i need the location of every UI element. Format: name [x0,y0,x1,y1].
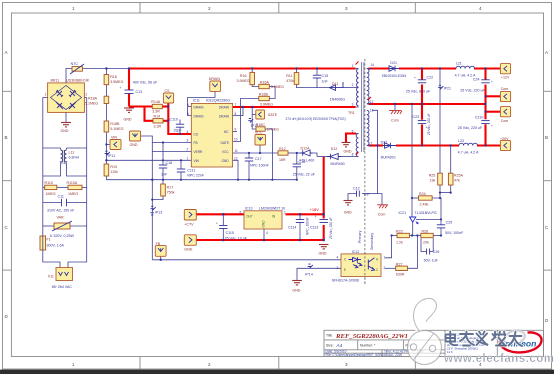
wire bridge AC left [43,98,60,268]
svg-text:400 Vdc, 56 uF: 400 Vdc, 56 uF [133,81,158,85]
wire divider row [392,235,441,237]
svg-text:Com: Com [501,87,509,91]
wire opto LED cathode to R27 [385,236,417,269]
resistor R25 [429,173,443,185]
svg-text:Number: *: Number: * [360,344,376,348]
svg-text:110k: 110k [110,170,118,174]
svg-text:+12V: +12V [501,76,510,80]
svg-text:GATE: GATE [221,141,229,145]
resistor R14A [151,100,162,113]
svg-text:630R: 630R [396,273,405,277]
ground GND bridge [61,112,72,133]
port Com upper [500,87,510,101]
resistor R16B [259,93,273,107]
svg-text:C114: C114 [288,226,296,230]
shunt regulator IC21 TL431 [399,211,437,224]
wire VCC port stem [259,145,261,153]
svg-text:GND: GND [61,129,69,133]
svg-text:www.elecfans.com: www.elecfans.com [443,353,554,365]
resistor R19 [104,164,118,176]
svg-text:50V, 1uF: 50V, 1uF [424,259,439,263]
svg-text:ICE2QR2280G: ICE2QR2280G [206,99,230,103]
svg-text:1N4006G: 1N4006G [330,98,346,102]
svg-text:1MEG: 1MEG [46,192,56,196]
wire VCC pin11 row [233,153,317,157]
wire CS shunt network [129,103,191,134]
svg-text:R19: R19 [110,165,117,169]
capacitor C24 [460,78,493,93]
svg-text:GND: GND [222,159,230,163]
svg-text:GND: GND [344,211,352,215]
diode D21 [382,61,407,78]
svg-text:R24: R24 [419,192,426,196]
resistor R27 [396,262,408,276]
svg-text:C13: C13 [136,90,143,94]
resistor R11 [286,73,299,85]
resistor R18B [104,121,124,132]
svg-text:L23: L23 [458,139,464,143]
ground GND +18V [319,245,329,256]
wire output filter branch [486,69,501,146]
ground GND C12 [344,201,353,215]
wire VERR stub [152,151,191,153]
wire C11 rung [43,202,87,204]
svg-text:F1: F1 [47,238,51,242]
ground GND TR1 pin5 [342,143,352,154]
svg-text:R16: R16 [240,74,247,78]
capacitor C11 [47,195,75,213]
wire IC13 out to +18V node [286,213,324,215]
svg-text:3: 3 [187,139,189,143]
wire IC13 gnd stub [263,229,265,240]
svg-text:C22: C22 [427,76,434,80]
svg-text:IC21: IC21 [399,211,407,215]
capacitor C210 [458,116,493,131]
resistor R24 [419,192,433,207]
resistor R23 [396,230,409,245]
diode D12 [327,147,345,166]
ground Com hatch rail [389,111,402,123]
svg-text:GND: GND [262,220,266,228]
svg-text:25 Vdc, 220 uF: 25 Vdc, 220 uF [460,89,485,93]
svg-text:+18V: +18V [310,207,320,212]
capacitor C115 [216,222,248,241]
svg-text:R18B: R18B [110,122,120,126]
svg-text:R12: R12 [279,147,286,151]
svg-text:+20V: +20V [500,137,509,141]
svg-text:C23: C23 [413,115,420,119]
wire C17 hanger [248,153,250,180]
svg-text:300V, 1.6A: 300V, 1.6A [47,244,65,248]
svg-text:R14A: R14A [151,100,161,104]
svg-text:R14: R14 [154,115,161,119]
svg-text:D21: D21 [390,61,397,65]
svg-text:C15: C15 [322,74,329,78]
svg-text:IP11: IP11 [108,154,115,158]
svg-text:R23: R23 [396,230,403,234]
svg-text:R27: R27 [396,262,403,266]
svg-text:25 Vdc, 22 uF: 25 Vdc, 22 uF [293,173,316,177]
svg-text:X11: X11 [48,275,54,279]
svg-text:2: 2 [208,6,211,11]
varistor VAR [50,216,75,239]
svg-text:18R: 18R [279,158,286,162]
capacitor C12 [353,187,370,197]
svg-text:+: + [120,86,122,90]
wire aux +18V rail [323,157,325,241]
connector X11 [48,268,73,290]
svg-text:Com: Com [391,119,399,123]
port GATE [256,110,278,119]
wire opto LED anode net [385,236,392,258]
wire TR1 pin5 to GND [346,134,356,143]
wire R18C to rail [265,129,272,180]
watermark lock [408,298,442,364]
svg-text:25 Vdc, 220 uF: 25 Vdc, 220 uF [427,113,431,135]
capacitor C26 [424,249,440,263]
svg-text:C24: C24 [473,78,480,82]
svg-text:VIN: VIN [194,159,200,163]
svg-text:DRAIN: DRAIN [219,114,230,118]
svg-text:3.9MEG: 3.9MEG [237,79,250,83]
svg-text:310V AC, 150 nF: 310V AC, 150 nF [47,209,75,213]
port DRAIN [209,77,221,91]
svg-text:CS: CS [194,132,198,136]
svg-text:R25A: R25A [454,174,464,178]
svg-text:1: 1 [187,156,189,160]
svg-text:NPC, 100nF: NPC, 100nF [306,217,310,235]
port Com lower [500,107,510,123]
wire drain pin8 tie [233,107,243,116]
wire DC bus+ top rail [129,67,356,69]
svg-text:FB: FB [194,141,198,145]
diode D22 [381,141,397,160]
op-amp controller IC11 ICE2QR2280G [187,99,239,168]
ground Com hatch C12 [377,205,388,217]
wire DRAIN port to pins [188,92,215,116]
svg-text:TR1: TR1 [348,111,355,115]
resistor R16 [237,72,255,84]
svg-text:BR11: BR11 [51,78,60,82]
svg-text:LM2903WDT 10: LM2903WDT 10 [259,207,285,211]
svg-text:L11: L11 [69,151,75,155]
capacitor C23 [413,113,432,135]
svg-text:2: 2 [208,362,211,367]
svg-text:C210: C210 [475,116,484,120]
wire D11 jog [296,87,298,89]
wire C115 hanger [222,214,224,240]
capacitor C18 [159,161,172,177]
wire isolation dash overlay [364,252,366,285]
wire feedback bottom rail [152,259,341,261]
svg-text:470k: 470k [286,79,294,83]
capacitor C15 [313,74,329,84]
svg-text:IP13: IP13 [155,211,162,215]
svg-text:R25: R25 [429,174,436,178]
svg-text:IC12: IC12 [352,250,360,254]
svg-text:1: 1 [72,362,75,367]
svg-text:1: 1 [72,6,75,11]
optocoupler IC12 SFH617A [332,250,386,283]
svg-text:C12: C12 [353,187,360,191]
svg-text:14: 14 [371,63,375,67]
svg-text:D12: D12 [331,147,338,151]
svg-text:12: 12 [234,156,238,160]
svg-text:CS: CS [165,89,171,93]
svg-text:C115: C115 [226,231,234,235]
svg-text:GND: GND [184,247,192,251]
svg-text:750k: 750k [167,191,175,195]
svg-text:25 Vdc, 10 uF: 25 Vdc, 10 uF [225,237,248,241]
svg-text:DRAIN: DRAIN [194,105,205,109]
svg-text:3: 3 [345,6,348,11]
svg-text:VCC: VCC [255,131,263,135]
svg-text:20k: 20k [423,241,429,245]
inductor L23 [458,139,479,155]
svg-text:C17: C17 [255,157,262,161]
svg-text:Size:: Size: [326,344,334,348]
wire Com rail [369,103,486,105]
svg-text:R18C: R18C [256,123,266,127]
svg-text:50V, 100nF: 50V, 100nF [445,231,464,235]
title block [324,330,544,357]
svg-text:13: 13 [370,109,374,113]
resistor R26 [421,230,433,245]
svg-text:1nF: 1nF [161,173,168,177]
svg-text:GND: GND [130,143,138,147]
svg-text:Title: Title [326,334,332,338]
wire Com hatch stem [394,104,396,110]
resistor R18 [104,75,123,85]
svg-text:12: 12 [370,100,374,104]
svg-text:DRAIN: DRAIN [219,105,230,109]
wire bridge output to NTC [66,69,129,83]
svg-text:3.9MEG: 3.9MEG [271,85,284,89]
port +CTV [184,210,196,227]
port +12V [500,64,510,80]
svg-text:2: 2 [187,148,189,152]
capacitor C13 [120,81,158,95]
port GND right [184,235,196,252]
inductor L21 [455,62,476,78]
capacitor C111 [177,169,205,178]
svg-text:TL431BVLPG: TL431BVLPG [415,211,437,215]
svg-text:B: B [545,135,548,140]
svg-text:Secondary: Secondary [370,233,374,250]
svg-text:NPC 22nF: NPC 22nF [187,174,205,178]
svg-text:File: C:\Users\bryan\Desktop\R: File: C:\Users\bryan\Desktop\REF_5GR2280… [326,353,402,357]
svg-text:D12A: D12A [301,147,311,151]
svg-text:R16A: R16A [260,81,270,85]
comparator IC13 LM2903 [240,207,287,236]
wire secondary +12V rail [369,67,501,69]
svg-text:4: 4 [187,130,189,134]
resistor R110A [67,181,83,196]
svg-text:R110A: R110A [67,181,78,185]
wire common rail under IC11 [106,179,296,181]
wire CS filter cap link [179,120,181,135]
testpoint IP11 [105,151,116,158]
diode D11 [330,82,346,102]
wire aux rectifier row [317,156,353,158]
svg-text:GND: GND [344,150,352,154]
wire +CTV to IC13 [196,213,244,215]
svg-text:VCC: VCC [222,150,229,154]
resistor R12 [278,147,288,162]
svg-text:L21: L21 [456,62,462,66]
svg-text:5.1MEG: 5.1MEG [110,127,123,131]
capacitor C110 [170,118,185,133]
ground GND C13 [124,108,135,122]
svg-text:E: E [344,268,346,272]
svg-text:3.9MEG: 3.9MEG [110,80,123,84]
wire gate drive chain [233,69,276,142]
svg-text:NPC 100nF: NPC 100nF [250,164,270,168]
svg-text:MUR490: MUR490 [331,162,345,166]
resistor R14 [153,115,163,129]
svg-text:NTC: NTC [71,62,79,66]
svg-text:11: 11 [235,149,239,153]
wire gate port node [252,107,256,129]
svg-text:SB10S100-E3/54: SB10S100-E3/54 [382,74,407,78]
wire R25 sense branch [440,69,451,199]
svg-text:OUT: OUT [246,215,253,219]
testpoint IP21 [438,85,451,90]
wire R110 rung [43,187,87,189]
wire C12 bridge [348,194,382,205]
testpoint IP12 [248,119,258,128]
resistor R18A [85,96,109,105]
svg-text:D22: D22 [381,141,388,145]
svg-text:C111: C111 [187,169,195,173]
svg-text:1nF: 1nF [363,193,370,197]
svg-text:3.3R: 3.3R [152,109,160,113]
svg-text:6: 6 [187,103,189,107]
svg-text:33pF: 33pF [174,129,183,133]
svg-text:C11: C11 [58,195,64,199]
svg-text:Com: Com [378,213,386,217]
port CS [163,89,173,103]
svg-text:R17: R17 [167,186,174,190]
port +20V [500,137,511,151]
svg-text:UD3KB80-DIK: UD3KB80-DIK [66,78,90,82]
svg-text:1: 1 [384,256,386,260]
svg-text:2.49k: 2.49k [420,203,429,207]
svg-text:FB: FB [156,242,161,246]
svg-text:1: 1 [284,211,286,215]
isolation barrier [358,59,374,285]
wire secondary +20V rail [369,144,501,146]
svg-text:1: 1 [45,93,47,97]
port VIN [110,136,121,150]
svg-text:NC: NC [224,130,229,134]
resistor R110 [45,181,57,196]
svg-text:VERR: VERR [194,150,204,154]
svg-text:5.1MEG: 5.1MEG [85,102,98,106]
svg-text:R110: R110 [45,181,53,185]
svg-text:R11: R11 [286,74,292,78]
svg-text:85~264 VAC: 85~264 VAC [52,285,73,289]
diode D12A [300,147,315,163]
svg-text:9: 9 [235,128,237,132]
svg-text:A4: A4 [336,343,343,348]
svg-text:4: 4 [266,231,268,235]
svg-text:Com: Com [501,119,509,123]
svg-text:U 320V, 0.25W: U 320V, 0.25W [50,234,75,238]
port FB [155,242,166,257]
capacitor C16 [293,160,316,177]
svg-text:IP14: IP14 [305,273,312,277]
wire C111 hanger [180,160,182,179]
svg-text:IC11: IC11 [193,99,200,103]
wire GND rail under IC13 [196,239,323,241]
svg-text:7: 7 [235,103,237,107]
resistor R16A [259,81,284,90]
svg-text:1nF: 1nF [322,80,329,84]
svg-text:7: 7 [371,142,373,146]
bottom bar [0,370,554,374]
svg-text:Primary: Primary [358,230,362,243]
wire L11 legs [43,148,87,176]
capacitor C114 [288,217,310,235]
wire VIN pin1 node [106,159,191,161]
svg-text:+: + [414,76,416,80]
wire GND pin12 stub [233,160,238,179]
svg-text:5: 5 [352,130,354,134]
wire VAR rung [43,225,87,227]
svg-text:SFH617A-3X006: SFH617A-3X006 [332,279,359,283]
svg-text:3.3R: 3.3R [154,125,162,129]
svg-text:5: 5 [240,211,242,215]
svg-text:IC13: IC13 [245,207,253,211]
svg-text:2: 2 [384,266,386,270]
svg-text:25 Vdc, 220 uF: 25 Vdc, 220 uF [329,217,333,239]
svg-text:274 uH (40:6:10:9) EE20/10/6 T: 274 uH (40:6:10:9) EE20/10/6 TP4A(TDG) [286,117,346,121]
svg-text:2: 2 [352,83,354,87]
wire R24 row [412,104,441,236]
svg-text:REF_5GR2280AG_22W1: REF_5GR2280AG_22W1 [335,333,408,340]
svg-text:R26: R26 [422,230,429,234]
wire C114 hanger [299,214,301,240]
wire C16 hanger [296,153,298,180]
wire D21 stub [367,68,372,70]
fuse F1 [40,236,65,250]
capacitor C113 [310,215,333,239]
svg-text:R18: R18 [110,75,117,79]
svg-text:10: 10 [234,138,238,142]
wire drain rail IC11 to TR1 pin3 [233,106,356,108]
svg-text:1MEG: 1MEG [68,192,78,196]
svg-text:4.7 uH, 4.2 A: 4.7 uH, 4.2 A [458,151,479,155]
svg-text:R16B: R16B [259,93,269,97]
svg-text:GATE: GATE [268,113,278,117]
svg-text:+: + [315,215,317,219]
svg-text:25 Vdc, 220 uF: 25 Vdc, 220 uF [458,126,483,130]
svg-text:17MEG: 17MEG [267,128,279,132]
svg-text:VAR: VAR [57,216,65,220]
capacitor C17 [245,157,270,168]
svg-text:3: 3 [345,362,348,367]
testpoint IP14 [305,264,313,276]
svg-text:GND: GND [319,252,327,256]
svg-text:GND: GND [124,118,132,122]
svg-text:D11: D11 [332,82,338,86]
svg-text:C25: C25 [446,221,453,225]
svg-text:8: 8 [352,153,354,157]
capacitor C25 [437,221,464,236]
wire C13 branch to GND [128,69,130,107]
svg-text:3: 3 [352,103,354,107]
